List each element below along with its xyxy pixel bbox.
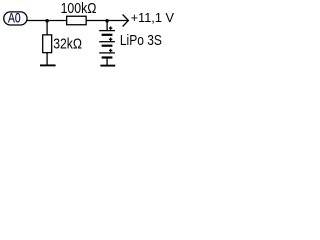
node junction 1	[45, 19, 49, 23]
wire battery to ground	[106, 58, 108, 66]
wire junction1 to R2	[46, 21, 48, 36]
battery BT1 LiPo 3S (3 cells)	[99, 31, 115, 58]
node junction 2	[105, 19, 109, 23]
svg-text:32kΩ: 32kΩ	[53, 36, 82, 53]
resistor R1	[67, 16, 87, 25]
wire A0 to R1	[27, 20, 66, 22]
resistor R2	[43, 35, 52, 53]
wire junction2 to battery	[106, 21, 108, 31]
svg-text:+11,1 V: +11,1 V	[131, 10, 175, 25]
plus mark cell 3	[109, 49, 112, 52]
svg-text:100kΩ: 100kΩ	[61, 1, 97, 17]
ground right	[100, 65, 115, 67]
plus mark cell 2	[109, 38, 112, 41]
svg-text:A0: A0	[8, 10, 21, 26]
svg-text:LiPo 3S: LiPo 3S	[120, 32, 162, 49]
ground left	[40, 64, 56, 66]
pin A0	[4, 12, 27, 25]
wire R2 to ground	[46, 53, 48, 66]
arrow to +11,1 V	[123, 15, 129, 27]
plus mark cell 1	[109, 26, 112, 29]
wire R1 to arrow	[86, 20, 128, 22]
